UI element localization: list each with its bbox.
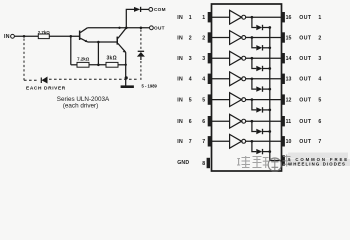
node OUT terminal (150, 26, 154, 30)
node COM branch junction (125, 27, 128, 30)
svg-text:1: 1 (202, 15, 205, 21)
svg-text:13: 13 (286, 77, 292, 83)
transistor Q2 (117, 28, 127, 53)
node emitter-resistor junction (125, 64, 127, 66)
clamp diode D3 (256, 66, 270, 71)
svg-text:3kΩ: 3kΩ (106, 56, 116, 62)
svg-text:3: 3 (189, 56, 192, 62)
node emitter junction (97, 41, 100, 44)
resistor R1 2.7k box (38, 34, 49, 39)
pin 14 box (281, 53, 285, 63)
pin 3 box (208, 53, 212, 63)
wire R1 to Q1 base (49, 35, 79, 37)
svg-text:IN: IN (4, 34, 10, 40)
svg-text:IN: IN (177, 97, 183, 103)
inverter A6 (230, 114, 246, 128)
node output junction 1 (251, 16, 254, 19)
pin 7 box (208, 136, 212, 146)
pin 12 box (281, 94, 285, 104)
node boundary crossing junction (125, 76, 128, 79)
svg-text:4: 4 (189, 77, 192, 83)
inverter A3 (230, 51, 246, 65)
svg-text:IN: IN (177, 56, 183, 62)
transistor Q1 (79, 28, 88, 42)
svg-text:OUT: OUT (299, 56, 312, 62)
pin 5 box (208, 94, 212, 104)
svg-text:5: 5 (189, 97, 192, 103)
diode D-COM (134, 7, 149, 12)
svg-text:5: 5 (318, 97, 321, 103)
svg-text:IN: IN (177, 77, 183, 83)
wire input 6 (212, 120, 230, 122)
svg-text:OUT: OUT (299, 15, 312, 21)
svg-text:(each driver): (each driver) (63, 103, 98, 110)
wire output 4 (246, 78, 282, 80)
node collector junction (118, 27, 120, 29)
diode D-clamp (137, 51, 145, 60)
node input junction (23, 35, 26, 38)
wire junction down to R2-R3 node (97, 42, 99, 65)
wire junction down to R2 (70, 36, 72, 65)
pin 1 box (208, 12, 212, 22)
wire dashed boundary bottom (24, 78, 139, 81)
wire output 6 (246, 120, 282, 122)
node rail junction 6 (268, 130, 271, 133)
wire dashed clamp diode upper (140, 30, 142, 51)
svg-text:COM: COM (154, 7, 166, 12)
wire IN to R1 (14, 35, 38, 37)
svg-text:IN: IN (177, 119, 183, 125)
svg-text:3: 3 (202, 56, 205, 62)
inverter A7 (230, 134, 246, 148)
wire diode stub 2 (252, 38, 256, 48)
svg-text:16: 16 (286, 15, 292, 21)
svg-text:OUT: OUT (299, 97, 312, 103)
node rail junction 7 (268, 150, 271, 153)
svg-text:15: 15 (286, 35, 292, 41)
pin 11 box (281, 116, 285, 126)
inverter A5 (230, 93, 246, 107)
wire output 1 (246, 16, 282, 18)
inverter A1 (230, 10, 246, 24)
svg-text:7: 7 (318, 139, 321, 145)
svg-text:4: 4 (202, 77, 205, 83)
svg-text:OUT: OUT (299, 35, 312, 41)
wire dashed boundary left (23, 39, 25, 81)
svg-text:2: 2 (318, 35, 321, 41)
clamp diode D1 (256, 25, 270, 30)
wire input 5 (212, 99, 230, 101)
ground (121, 85, 134, 88)
node IN terminal (11, 34, 15, 38)
wire output 5 (246, 99, 282, 101)
pin 6 box (208, 116, 212, 126)
COM rail (270, 28, 282, 161)
node output junction 7 (251, 140, 254, 143)
node output junction 3 (251, 57, 254, 60)
svg-text:EACH DRIVER: EACH DRIVER (26, 86, 66, 92)
IC U1 body (212, 4, 282, 171)
svg-text:11: 11 (286, 119, 292, 125)
pin 15 box (281, 32, 285, 42)
svg-text:IN: IN (177, 139, 183, 145)
svg-text:OUT: OUT (154, 26, 165, 31)
pin 9 box (281, 155, 285, 165)
pin 10 box (281, 136, 285, 146)
pin 2 box (208, 32, 212, 42)
wire input 1 (212, 16, 230, 18)
node output junction 4 (251, 77, 254, 80)
svg-text:10: 10 (286, 139, 292, 145)
svg-text:2.7kΩ: 2.7kΩ (38, 30, 51, 35)
resistor R2 7.2k box (71, 62, 89, 67)
svg-text:14: 14 (286, 56, 292, 62)
pin 13 box (281, 74, 285, 84)
node rail junction 1 (268, 26, 271, 29)
wire Q2 emitter down to ground (125, 52, 127, 86)
wire diode stub 5 (252, 100, 256, 110)
svg-text:2: 2 (189, 35, 192, 41)
watermark emblem circle (268, 158, 281, 171)
wire input 2 (212, 37, 230, 39)
svg-text:WHEELING DIODES: WHEELING DIODES (288, 162, 346, 167)
svg-text:8: 8 (202, 161, 205, 167)
clamp diode D7 (256, 149, 270, 154)
node clamp junction (140, 27, 143, 30)
node output junction 2 (251, 36, 254, 39)
svg-text:6: 6 (318, 119, 321, 125)
node COM terminal (149, 7, 153, 11)
svg-text:5 - 1989: 5 - 1989 (142, 83, 158, 88)
wire diode stub 7 (252, 141, 256, 151)
node output junction 5 (251, 98, 254, 101)
node Q1 base junction (70, 35, 73, 38)
wire diode stub 6 (252, 121, 256, 131)
clamp diode D2 (256, 45, 270, 50)
svg-text:3: 3 (318, 56, 321, 62)
wire diode stub 4 (252, 79, 256, 89)
inverter A4 (230, 72, 246, 86)
svg-text:7: 7 (189, 139, 192, 145)
node rail junction 4 (268, 88, 271, 91)
svg-text:6: 6 (202, 119, 205, 125)
svg-text:OUT: OUT (299, 119, 312, 125)
wire input 7 (212, 140, 230, 142)
node output junction 6 (251, 120, 254, 123)
pin 16 box (281, 12, 285, 22)
wire dashed clamp diode lower (140, 61, 142, 81)
svg-text:GND: GND (177, 160, 189, 166)
svg-text:2: 2 (202, 35, 205, 41)
svg-text:1: 1 (318, 15, 321, 21)
pin 8 box (207, 158, 210, 168)
svg-text:6: 6 (189, 119, 192, 125)
wire R2 to R3 (89, 64, 106, 66)
svg-text:7.2kΩ: 7.2kΩ (77, 56, 90, 61)
clamp diode D4 (256, 86, 270, 91)
svg-text:IN: IN (177, 15, 183, 21)
pin 4 box (208, 74, 212, 84)
svg-text:4: 4 (318, 77, 321, 83)
wire Q1 emitter to Q2 base (88, 41, 117, 43)
clamp diode D6 (256, 129, 270, 134)
svg-text:12: 12 (286, 97, 292, 103)
watermark (237, 153, 350, 172)
wire input 3 (212, 57, 230, 59)
wire up to COM branch (126, 9, 134, 27)
node R2-R3 junction (97, 64, 100, 67)
node rail junction 2 (268, 46, 271, 49)
wire output 7 (246, 140, 282, 142)
svg-text:7: 7 (202, 139, 205, 145)
diode boundary marker (41, 77, 47, 84)
svg-text:IN: IN (177, 35, 183, 41)
resistor R3 3k box (106, 62, 118, 67)
wire input 4 (212, 78, 230, 80)
wire diode stub 3 (252, 58, 256, 68)
clamp diode D5 (256, 107, 270, 112)
node rail junction 5 (268, 109, 271, 112)
wire output 2 (246, 37, 282, 39)
wire collector rail / OUT line (87, 27, 149, 29)
wire output 3 (246, 57, 282, 59)
wire R3 to emitter rail (118, 64, 126, 66)
svg-text:OUT: OUT (299, 77, 312, 83)
svg-text:OUT: OUT (299, 139, 312, 145)
inverter A2 (230, 31, 246, 45)
node rail junction 3 (268, 67, 271, 70)
svg-text:5: 5 (202, 97, 205, 103)
svg-text:1: 1 (189, 15, 192, 21)
wire diode stub 1 (252, 17, 256, 27)
